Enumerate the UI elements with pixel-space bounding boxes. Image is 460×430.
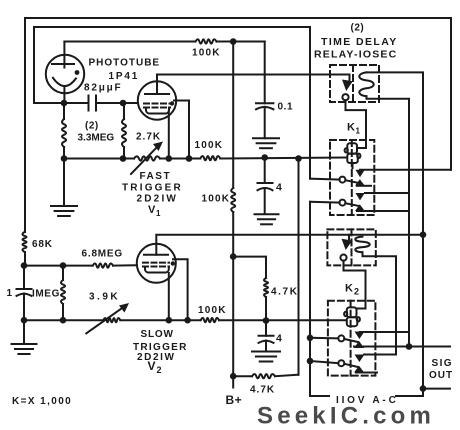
svg-text:V: V — [148, 359, 157, 373]
label 100K vert — [202, 194, 231, 205]
relay coil K1 — [345, 143, 361, 163]
K2 contact1 pivot — [338, 335, 344, 341]
wire V1 side lead — [174, 101, 189, 159]
svg-text:0.1: 0.1 — [278, 102, 294, 113]
wire left ground lead — [23, 320, 25, 344]
thyratron V2 dot — [171, 261, 175, 265]
phototube 1P41 target dot — [75, 70, 80, 75]
wire 1meg bottom — [62, 304, 64, 320]
thyratron V1 cathode — [146, 108, 169, 114]
resistor 2.7K — [122, 103, 126, 159]
wire Bplus rail upper — [232, 42, 234, 189]
label 100K top — [192, 48, 221, 59]
label K1 — [347, 122, 361, 136]
svg-text:FAST: FAST — [140, 171, 172, 182]
svg-text:1P41: 1P41 — [109, 71, 140, 82]
capacitor 82uuF — [89, 96, 97, 111]
wire V2 plate wire — [156, 235, 423, 255]
svg-text:K: K — [347, 122, 356, 134]
thyratron V1 dot — [170, 101, 174, 105]
svg-text:SeekIC.com: SeekIC.com — [257, 403, 435, 430]
junction node 16 — [263, 317, 270, 324]
junction node 15 — [184, 317, 191, 324]
thyratron V2 plate — [144, 254, 168, 256]
wire sig out top — [354, 346, 450, 348]
svg-text:2D2IW: 2D2IW — [137, 194, 179, 205]
svg-text:IMEG: IMEG — [32, 289, 60, 300]
phototube 1P41 envelope — [46, 55, 84, 93]
label K=X 1000 — [12, 396, 72, 407]
wire cap4a ground lead — [264, 188, 266, 214]
wire K1 NO2 wire — [365, 192, 409, 194]
resistor 3.3MEG — [62, 103, 66, 159]
junction node 13 — [60, 317, 67, 324]
potentiometer fast 2.7K element — [134, 156, 160, 160]
svg-text:RELAY-IOSEC: RELAY-IOSEC — [314, 49, 397, 61]
thyratron V2 cathode — [145, 267, 169, 273]
label 2021W V1 — [137, 194, 179, 205]
wire grid row right — [113, 264, 137, 266]
label 100K mid — [195, 140, 224, 151]
junction node 2 — [120, 100, 127, 107]
resistor 100K mid — [200, 156, 220, 160]
junction node 4 — [61, 155, 68, 162]
svg-text:1: 1 — [356, 127, 361, 136]
K1 contact2 NC triangle — [355, 204, 371, 211]
junction node 7 — [186, 155, 193, 162]
junction node 8 — [261, 154, 268, 161]
wire fast row right — [220, 158, 346, 159]
resistor 6.8MEG — [93, 264, 113, 268]
label 2.7K — [136, 132, 161, 143]
svg-text:4: 4 — [276, 333, 283, 345]
potentiometer fast arrow — [131, 142, 163, 175]
label TIME DELAY — [321, 36, 398, 48]
wire phototube row right — [96, 102, 138, 104]
K1 thermal pivot circle — [342, 94, 348, 100]
ground left — [12, 344, 37, 354]
K1 contact1 NO triangle — [356, 170, 365, 177]
label 82uuF — [84, 83, 122, 94]
capacitor 4 upper — [258, 183, 273, 190]
junction node 11 — [60, 262, 67, 269]
K1 contact1 pivot — [339, 177, 345, 183]
relay coil K2 — [344, 307, 360, 326]
phototube 1P41 anode plate — [52, 42, 74, 68]
wire K2 arm1 feed — [310, 337, 338, 340]
svg-text:TIME DELAY: TIME DELAY — [321, 36, 398, 48]
resistor 100K bottom — [201, 318, 219, 322]
K2 thermal arm lead — [348, 235, 350, 239]
wire V1 grid lead — [123, 102, 138, 104]
svg-text:OUT: OUT — [429, 370, 453, 381]
wire K1 coil link — [346, 100, 367, 148]
thyratron V1 grid — [144, 104, 170, 108]
svg-text:B+: B+ — [226, 393, 243, 407]
svg-text:100K: 100K — [198, 305, 227, 316]
K2 contact1 NC triangle — [354, 341, 364, 348]
wire K1 NC2 wire — [370, 210, 409, 212]
svg-text:(2): (2) — [85, 121, 99, 132]
K1 contact2 pivot — [339, 200, 345, 206]
wire 1meg top — [62, 266, 64, 280]
wire grid row — [24, 265, 93, 267]
svg-text:100K: 100K — [195, 140, 224, 151]
wire second rail — [34, 26, 310, 28]
svg-text:SLOW: SLOW — [141, 329, 174, 340]
wire bias bottom2 — [275, 375, 299, 377]
ground fast row — [51, 206, 77, 216]
junction node 20 — [307, 358, 314, 365]
thyratron V2 2D21W envelope — [137, 244, 176, 283]
resistor 68K — [23, 232, 27, 252]
wire K2 heater bottom — [363, 252, 397, 354]
junction node 18 — [230, 373, 237, 380]
svg-text:V: V — [148, 204, 156, 216]
K2 contact2 arm — [344, 364, 358, 367]
svg-text:100K: 100K — [202, 194, 231, 205]
K2 thermal arrow — [342, 239, 353, 250]
K2 thermal pivot circle — [340, 255, 346, 261]
wire 47K top feed — [233, 257, 266, 278]
wire anode row drop — [264, 42, 266, 104]
svg-text:82μμF: 82μμF — [84, 83, 122, 94]
junction node 10 — [21, 262, 28, 269]
svg-text:3.3MEG: 3.3MEG — [78, 133, 115, 144]
wire 110V rail left — [310, 395, 329, 397]
label 1MEG — [32, 289, 60, 300]
svg-text:68K: 68K — [32, 239, 53, 250]
label 3.3MEG — [78, 133, 115, 144]
wire left rail low2 — [23, 266, 25, 289]
label K2 — [345, 283, 360, 297]
junction node 1 — [61, 100, 68, 107]
wire bias bottom — [234, 375, 252, 377]
wire second rail left drop — [33, 27, 35, 103]
svg-text:1: 1 — [7, 288, 13, 299]
label (2) left — [85, 121, 99, 132]
label 6.8MEG — [82, 249, 123, 260]
wire K2 coil link — [344, 261, 366, 309]
wire K2 NO2 wire — [364, 354, 396, 356]
wire 110V rail right — [396, 395, 423, 397]
resistor 4.7K bottom — [252, 374, 275, 378]
capacitor 0.1 — [256, 103, 273, 109]
capacitor 1 — [17, 289, 32, 296]
wire K1 coil stub — [352, 163, 354, 168]
junction node 3 — [230, 38, 237, 45]
K2 contact2 pivot — [338, 360, 344, 366]
wire V1 cathode lead — [168, 111, 170, 159]
watermark SeekIC.com — [257, 403, 435, 430]
wire slow row right — [219, 319, 347, 321]
junction node 12 — [21, 317, 28, 324]
resistor 100K top — [196, 39, 217, 43]
label TRIGGER V1 — [122, 183, 183, 194]
wire cap4b ground lead — [265, 341, 267, 352]
label 0.1 — [278, 102, 294, 113]
junction node 6 — [166, 155, 173, 162]
K2 contact2 NO triangle — [355, 355, 365, 363]
wire ground lead fast row — [63, 159, 65, 207]
label (2) top — [351, 23, 365, 34]
wire K1 arm2 feed — [310, 201, 340, 204]
K1 contact1 NC triangle — [355, 179, 371, 186]
junction node 23 — [406, 343, 413, 350]
label 4.7K upper — [271, 287, 299, 298]
wire sig out bottom — [423, 388, 450, 390]
wire V1 plate to relay — [157, 75, 350, 95]
svg-text:6.8MEG: 6.8MEG — [82, 249, 123, 260]
wire fast trigger row — [64, 158, 134, 160]
svg-text:TRIGGER: TRIGGER — [122, 183, 183, 194]
K2 heater element — [355, 237, 369, 253]
label V1 — [148, 204, 161, 218]
svg-text:2: 2 — [354, 287, 360, 297]
svg-text:K=X 1,000: K=X 1,000 — [12, 396, 72, 407]
svg-text:2: 2 — [157, 365, 163, 375]
svg-text:K: K — [345, 283, 354, 295]
label SLOW — [141, 329, 174, 340]
svg-text:100K: 100K — [192, 48, 221, 59]
K2 contact1 arm — [344, 339, 358, 342]
wire K2 NO1 wire — [360, 331, 409, 333]
label 2021W V2 — [137, 352, 176, 363]
K1 contact2 NO triangle — [356, 193, 365, 200]
wire wire2 drop lower — [309, 202, 311, 396]
junction node 5 — [120, 155, 127, 162]
junction node 22 — [420, 385, 427, 392]
resistor 4.7K vertical — [264, 278, 268, 297]
K2 contact dashed box — [328, 301, 376, 376]
K1 contact dashed box — [330, 140, 374, 215]
K1 thermal arrow — [342, 80, 353, 92]
K2 contact1 NO triangle — [355, 332, 365, 340]
wire fast row mid — [160, 158, 200, 160]
wire K1 NO wire — [360, 169, 451, 171]
svg-text:3.9K: 3.9K — [89, 292, 120, 303]
junction node 21 — [420, 231, 427, 238]
wire 47K bottom — [265, 297, 267, 321]
junction node 14 — [166, 317, 173, 324]
wire K1 arm1 feed — [310, 179, 340, 180]
wire top rail — [25, 17, 451, 19]
K1 contact1 arm — [345, 180, 359, 183]
capacitor 4 lower — [259, 336, 274, 343]
label 4 lower — [276, 333, 283, 345]
K2 contact2 NC triangle — [354, 366, 377, 373]
ground cap4 lower — [252, 352, 280, 362]
K1 heater element — [359, 72, 373, 96]
thyratron V1 plate — [145, 93, 169, 95]
wire phototube row — [34, 102, 89, 104]
K1 thermal arm lead — [349, 75, 351, 81]
potentiometer slow arrow — [86, 303, 129, 333]
resistor 100K vertical — [231, 188, 235, 212]
junction node 9 — [295, 155, 302, 162]
wire 01cap ground lead — [264, 107, 266, 138]
wire wire2 drop upper — [309, 27, 311, 179]
label 100K bottom — [198, 305, 227, 316]
wire K1 heater bottom — [367, 96, 410, 346]
svg-text:(2): (2) — [351, 23, 365, 34]
label SIG — [432, 358, 453, 369]
label 1 — [7, 288, 13, 299]
wire top right drop — [450, 18, 452, 170]
label TRIGGER V2 — [133, 342, 188, 353]
label 4 upper — [276, 182, 283, 194]
label RELAY-10SEC — [314, 49, 397, 61]
wire anode row — [64, 41, 195, 43]
K1 thermal dashed box — [330, 65, 379, 102]
label 68K — [32, 239, 53, 250]
junction node 17 — [230, 253, 237, 260]
wire K2 arm2 feed — [310, 361, 338, 363]
svg-text:4: 4 — [276, 182, 283, 194]
svg-text:SIG: SIG — [432, 358, 453, 369]
potentiometer slow 3.9K element — [103, 318, 120, 322]
svg-text:4.7K: 4.7K — [271, 287, 299, 298]
phototube 1P41 cathode — [53, 78, 76, 103]
svg-text:1: 1 — [156, 209, 161, 218]
wire V2 cathode lead — [168, 273, 170, 320]
ground 0.1 cap — [253, 138, 279, 148]
ground cap4 upper — [255, 214, 279, 224]
label 3.9K — [89, 292, 120, 303]
label OUT — [429, 370, 453, 381]
wire left rail low3 — [23, 294, 25, 321]
thyratron V1 2D21W envelope — [138, 81, 176, 119]
wire bias drop — [298, 159, 300, 375]
wire cap4a lead — [264, 158, 266, 184]
label 1P41 — [109, 71, 140, 82]
label V2 — [148, 359, 163, 375]
svg-text:4.7K: 4.7K — [250, 385, 275, 396]
wire slow row left — [24, 319, 103, 321]
wire cap4b lead — [265, 321, 267, 336]
resistor 1MEG — [61, 280, 65, 304]
wire left rail upper — [24, 18, 26, 232]
wire V2 side lead — [173, 259, 188, 320]
label B+ — [226, 393, 243, 407]
svg-text:PHOTOTUBE: PHOTOTUBE — [89, 58, 161, 69]
wire Bplus rail lower — [232, 212, 234, 388]
label 110V A-C — [336, 395, 399, 406]
label FAST — [140, 171, 172, 182]
label PHOTOTUBE — [89, 58, 161, 69]
thyratron V2 grid — [143, 263, 169, 267]
wire left rail low1 — [24, 252, 26, 266]
wire slow row mid — [120, 319, 200, 321]
junction node 19 — [307, 335, 314, 342]
wire K1 heater top — [367, 72, 424, 396]
K1 contact2 arm — [345, 203, 359, 206]
label 4.7K lower — [250, 385, 275, 396]
K2 thermal dashed box — [327, 229, 375, 265]
svg-text:2.7K: 2.7K — [136, 132, 161, 143]
wire anode row after 100K — [217, 41, 265, 43]
